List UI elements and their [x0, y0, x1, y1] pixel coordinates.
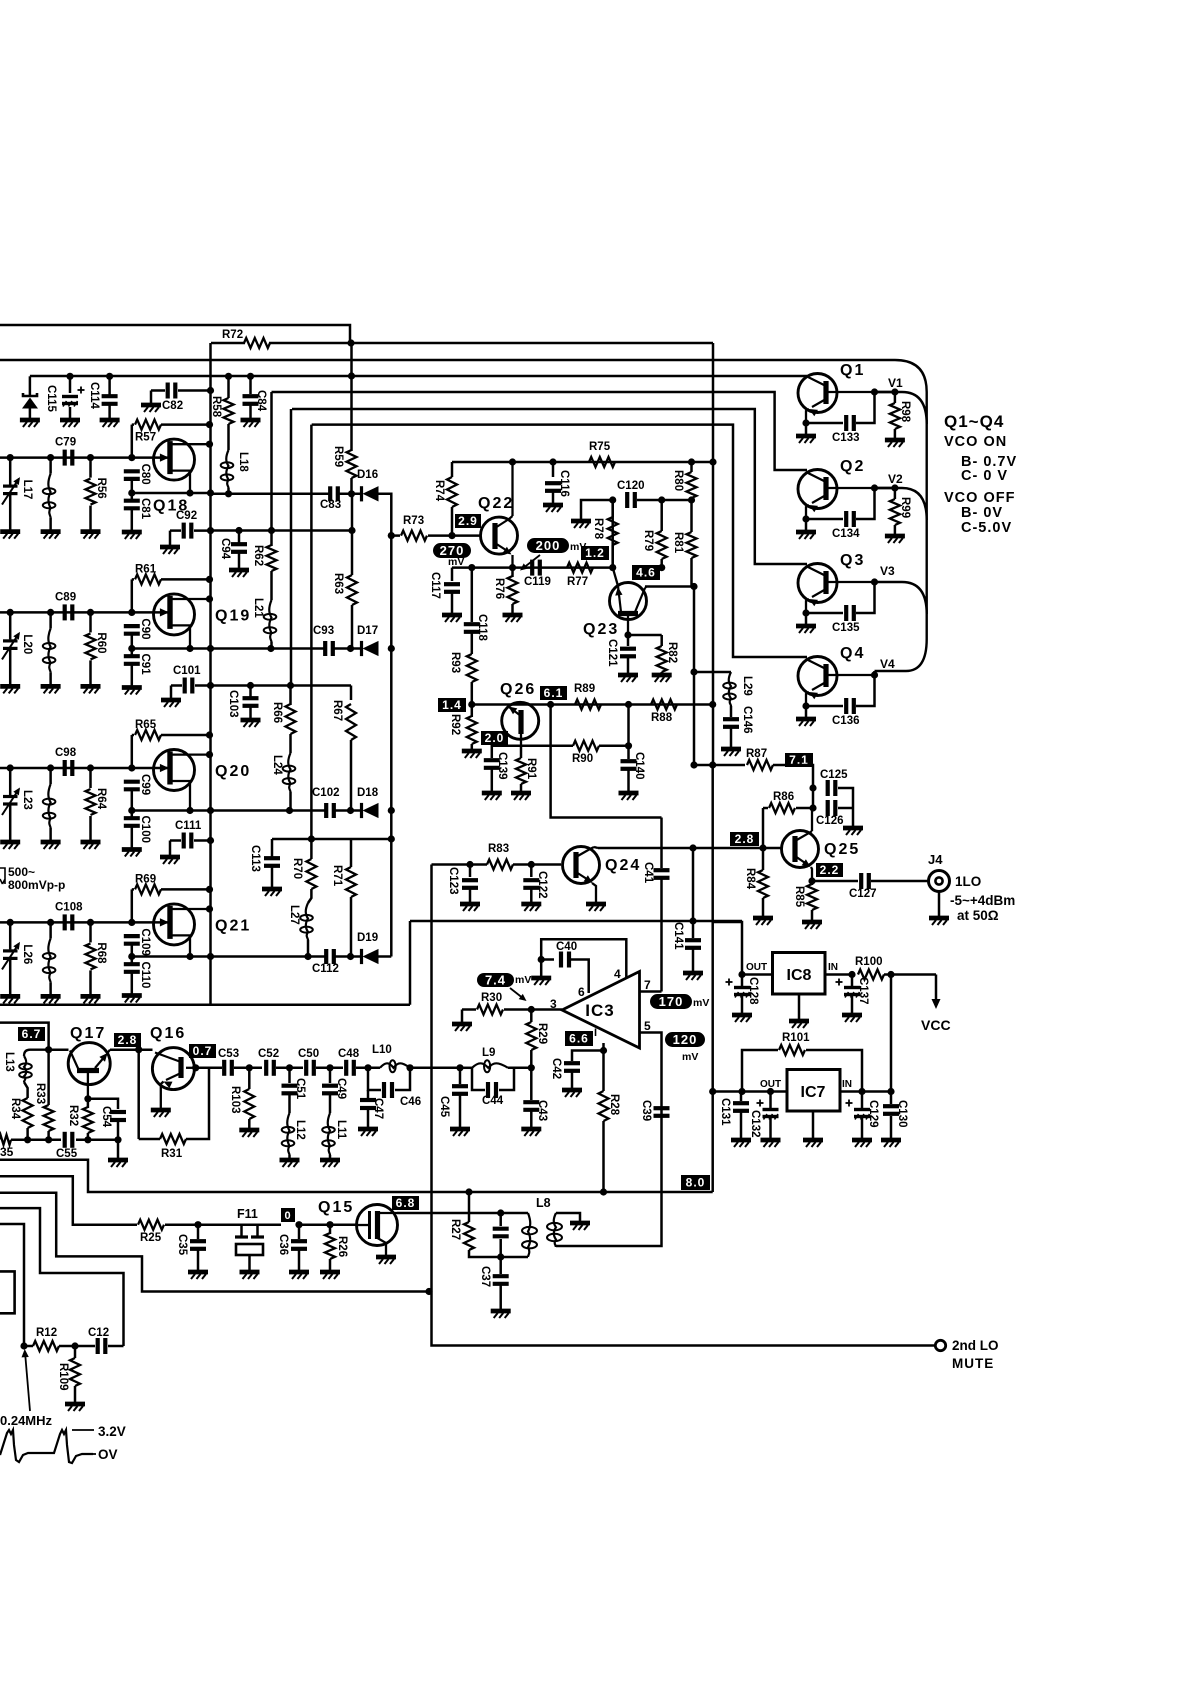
- svg-text:L18: L18: [237, 452, 249, 472]
- box 8.0: [681, 1175, 710, 1190]
- capacitor C116: [552, 462, 555, 477]
- svg-text:C- 0 V: C- 0 V: [961, 468, 1008, 484]
- wire IC7 IN row: [840, 1090, 891, 1093]
- svg-text:mV: mV: [682, 1051, 698, 1063]
- svg-text:R79: R79: [642, 530, 654, 551]
- capacitor C132: [757, 1102, 764, 1104]
- svg-text:C54: C54: [100, 1106, 112, 1128]
- transistor Q23: [610, 583, 647, 620]
- inductor L23: [47, 764, 54, 771]
- capacitor C84: [247, 373, 254, 380]
- svg-text:R78: R78: [592, 518, 604, 540]
- svg-text:L27: L27: [288, 905, 300, 925]
- svg-text:C108: C108: [55, 901, 83, 913]
- resistor R103: [246, 1064, 253, 1071]
- resistor R89: [575, 700, 601, 710]
- resistor R58: [225, 373, 232, 380]
- capacitor C133: [806, 422, 843, 425]
- capacitor C99: [124, 780, 140, 784]
- capacitor C135: [806, 612, 843, 615]
- svg-text:C113: C113: [249, 845, 261, 872]
- wire y=530.5 (C92 row to R63): [211, 529, 353, 532]
- svg-text:C83: C83: [320, 499, 341, 511]
- svg-text:D16: D16: [357, 469, 378, 481]
- wire D19 to rail: [378, 955, 391, 958]
- svg-text:C41: C41: [642, 862, 654, 884]
- box 7.1: [785, 753, 813, 767]
- inductor L17: [47, 454, 54, 461]
- svg-text:R60: R60: [95, 632, 107, 653]
- resistor R61: [132, 578, 134, 581]
- svg-text:C123: C123: [447, 867, 459, 895]
- resistor R70: [306, 859, 316, 889]
- svg-text:4: 4: [614, 967, 621, 981]
- resistor R90: [573, 741, 599, 751]
- svg-text:C115: C115: [45, 385, 57, 412]
- capacitor C82: [151, 389, 165, 392]
- resistor R74: [447, 477, 457, 507]
- wire Q20 source row extension: [211, 809, 327, 812]
- transistor Q24: [563, 847, 600, 884]
- svg-text:0: 0: [284, 1210, 291, 1222]
- svg-text:R34: R34: [9, 1098, 21, 1120]
- svg-text:6.1: 6.1: [544, 686, 564, 700]
- svg-text:Q19: Q19: [215, 607, 251, 624]
- pill 120 mV: [665, 1032, 705, 1047]
- svg-text:C35: C35: [176, 1234, 188, 1256]
- svg-text:R77: R77: [567, 576, 588, 588]
- svg-text:C92: C92: [176, 510, 197, 522]
- resistor R31: [137, 1050, 140, 1139]
- wire bus y=376 (Q1 base line): [30, 375, 807, 378]
- box 0 (F11 out): [281, 1208, 295, 1222]
- resistor R78: [608, 517, 618, 545]
- resistor R71: [346, 867, 356, 897]
- junction R72/y325: [347, 339, 354, 346]
- svg-text:J4: J4: [928, 852, 943, 867]
- capacitor C139: [492, 746, 521, 758]
- inductor L8 primary: [501, 1212, 528, 1215]
- svg-text:C102: C102: [312, 787, 340, 799]
- svg-text:6.8: 6.8: [396, 1196, 416, 1210]
- capacitor C118: [471, 568, 474, 622]
- svg-text:R70: R70: [291, 858, 303, 879]
- capacitor C114: [106, 373, 113, 380]
- resistor R85: [811, 881, 814, 885]
- capacitor C38: [499, 1213, 502, 1226]
- wire source row Q21: [132, 955, 211, 958]
- svg-text:120: 120: [673, 1032, 698, 1047]
- box 6.8: [392, 1196, 419, 1210]
- svg-text:C116: C116: [558, 470, 570, 497]
- svg-text:C130: C130: [896, 1100, 908, 1128]
- svg-text:R58: R58: [210, 396, 222, 418]
- svg-text:Q16: Q16: [150, 1025, 186, 1042]
- svg-text:C47: C47: [372, 1098, 384, 1119]
- svg-text:C46: C46: [400, 1096, 421, 1108]
- resistor R62: [270, 531, 273, 547]
- wire pin7 to C41: [640, 990, 662, 993]
- ground Q1 emitter: [802, 419, 809, 426]
- svg-text:IC7: IC7: [801, 1084, 826, 1101]
- capacitor C36: [295, 1221, 302, 1228]
- ground IC8: [798, 994, 801, 1020]
- svg-text:Q2: Q2: [840, 458, 865, 475]
- capacitor C122: [530, 865, 533, 878]
- svg-text:C100: C100: [139, 816, 151, 844]
- capacitor C102: [324, 803, 328, 818]
- svg-text:R88: R88: [651, 712, 673, 724]
- wire rail x=712 (y765-1192): [711, 765, 714, 1192]
- svg-text:R27: R27: [449, 1219, 461, 1240]
- arrow 200mV to emitter: [522, 555, 540, 569]
- vertical x=612 (R77 node to C120): [611, 500, 614, 568]
- svg-text:C137: C137: [857, 977, 869, 1005]
- svg-text:C131: C131: [719, 1098, 731, 1126]
- svg-text:C45: C45: [438, 1096, 450, 1118]
- resistor R28: [599, 1091, 609, 1121]
- svg-text:C93: C93: [313, 625, 334, 637]
- transistor Q22: [481, 517, 518, 554]
- inductor L27: [306, 903, 308, 940]
- svg-text:R31: R31: [161, 1148, 183, 1160]
- svg-text:C103: C103: [227, 690, 239, 718]
- resistor R56: [87, 454, 94, 461]
- wire rail x=211 (y343-1004): [209, 343, 212, 1005]
- svg-text:7: 7: [644, 978, 651, 992]
- inductor L20: [47, 609, 54, 616]
- wire IC8 OUT from rail: [713, 922, 742, 975]
- capacitor C111: [170, 839, 181, 842]
- svg-text:C51: C51: [294, 1078, 306, 1100]
- wire Q18 source row extension: [211, 493, 331, 496]
- capacitor C46: [406, 1064, 413, 1071]
- svg-text:C135: C135: [832, 622, 860, 634]
- svg-text:C84: C84: [255, 390, 267, 412]
- capacitor C126: [809, 804, 816, 811]
- transistor Q25: [782, 831, 819, 868]
- vertical x=694 (R81-Q23-L29-R87): [693, 587, 696, 766]
- capacitor C40 loop: [538, 956, 545, 963]
- capacitor C12: [71, 1342, 78, 1349]
- svg-text:R71: R71: [331, 865, 343, 887]
- svg-text:2.8: 2.8: [118, 1033, 138, 1047]
- svg-text:C136: C136: [832, 715, 860, 727]
- svg-text:R63: R63: [332, 573, 344, 594]
- svg-text:Q4: Q4: [840, 645, 865, 662]
- svg-text:R75: R75: [589, 441, 611, 453]
- wire Q23 collector y=586.5: [645, 585, 694, 588]
- transistor Q1: [798, 374, 837, 413]
- svg-text:2.0: 2.0: [485, 731, 505, 745]
- pill 270 mV: [433, 543, 471, 558]
- capacitor C137: [836, 981, 843, 983]
- svg-text:Q20: Q20: [215, 763, 251, 780]
- svg-text:R68: R68: [95, 942, 107, 964]
- resistor R92: [468, 701, 475, 708]
- resistor R59: [347, 450, 357, 478]
- svg-text:C89: C89: [55, 591, 76, 603]
- resistor R27: [464, 1222, 474, 1250]
- transistor Q4: [798, 657, 837, 696]
- box 1.4: [438, 698, 466, 712]
- capacitor C130: [883, 1104, 899, 1108]
- wire VCC branch: [887, 971, 894, 978]
- svg-text:3.2V: 3.2V: [98, 1424, 126, 1439]
- wire VCO loop bus: [895, 360, 927, 671]
- svg-text:Q23: Q23: [583, 621, 619, 638]
- pill 200 mV: [527, 538, 569, 553]
- capacitor C50: [304, 1060, 308, 1076]
- svg-text:R99: R99: [899, 497, 911, 518]
- svg-text:C127: C127: [849, 888, 877, 900]
- svg-text:C91: C91: [139, 654, 151, 676]
- svg-text:mV: mV: [693, 997, 709, 1009]
- capacitor C92: [170, 529, 181, 532]
- svg-text:C111: C111: [175, 820, 202, 832]
- diode D19: [304, 953, 311, 960]
- wire R83 row y=864.5: [432, 863, 471, 866]
- svg-text:R101: R101: [782, 1032, 810, 1044]
- capacitor C42: [572, 1051, 604, 1062]
- svg-text:mV: mV: [448, 556, 464, 568]
- inductor L21: [270, 571, 273, 600]
- zener diode (supply): [29, 376, 32, 395]
- svg-text:8.0: 8.0: [686, 1176, 706, 1190]
- transistor Q19 (FET): [128, 609, 135, 616]
- wire input row Q21 y=922.4: [0, 921, 132, 924]
- svg-text:R72: R72: [222, 329, 243, 341]
- varactor diode row Q19: [7, 609, 14, 616]
- resistor R87: [747, 760, 773, 770]
- svg-text:C50: C50: [298, 1048, 319, 1060]
- svg-text:C126: C126: [816, 815, 844, 827]
- varactor diode row Q20: [7, 764, 14, 771]
- wire source row Q19: [132, 647, 211, 650]
- wire staircase 2 (to R25): [0, 1176, 137, 1225]
- svg-text:R81: R81: [672, 532, 684, 554]
- capacitor C89: [63, 604, 67, 620]
- transistor Q21 (FET): [128, 919, 135, 926]
- resistor R69: [132, 888, 134, 891]
- wire bus y=409 (Q3 base line): [292, 409, 807, 564]
- wire Q25 emitter y=881: [808, 877, 815, 884]
- svg-text:C12: C12: [88, 1327, 109, 1339]
- svg-text:R28: R28: [608, 1094, 620, 1116]
- capacitor C100: [128, 807, 135, 814]
- diode D16: [348, 490, 355, 497]
- svg-text:Q24: Q24: [605, 857, 641, 874]
- capacitor C125: [809, 784, 816, 791]
- capacitor C103: [249, 686, 252, 698]
- capacitor C39: [654, 1106, 670, 1110]
- svg-text:C43: C43: [536, 1100, 548, 1121]
- svg-text:L17: L17: [21, 480, 33, 500]
- svg-text:C119: C119: [524, 576, 551, 588]
- svg-text:R30: R30: [481, 992, 502, 1004]
- box 4.6: [632, 565, 660, 580]
- svg-text:L8: L8: [536, 1196, 551, 1210]
- capacitor C108: [63, 914, 67, 930]
- resistor R29: [526, 1022, 536, 1050]
- capacitor C80: [124, 469, 140, 473]
- svg-text:R29: R29: [536, 1023, 548, 1044]
- svg-text:0.24MHz: 0.24MHz: [0, 1413, 53, 1428]
- capacitor C134: [806, 518, 843, 521]
- svg-text:C39: C39: [640, 1100, 652, 1121]
- svg-text:R76: R76: [493, 578, 505, 599]
- svg-text:Q1: Q1: [840, 362, 865, 379]
- svg-text:2.8: 2.8: [735, 832, 755, 846]
- svg-text:R89: R89: [574, 683, 595, 695]
- wire R87 row y=765: [694, 764, 745, 767]
- svg-text:V1: V1: [888, 376, 903, 390]
- svg-text:R59: R59: [332, 446, 344, 467]
- svg-text:C112: C112: [312, 963, 339, 975]
- svg-text:Q17: Q17: [70, 1025, 106, 1042]
- transistor Q15 (FET): [330, 1223, 357, 1226]
- svg-text:5: 5: [644, 1019, 651, 1033]
- wire R87 to C125: [773, 765, 813, 788]
- inductor L11: [328, 1113, 330, 1155]
- resistor R82: [628, 634, 662, 637]
- wire staircase 5 (to R12 node): [0, 1224, 24, 1346]
- svg-text:L20: L20: [21, 634, 33, 654]
- resistor R12: [20, 1342, 27, 1349]
- svg-text:R69: R69: [135, 873, 156, 885]
- svg-text:OUT: OUT: [746, 962, 767, 973]
- box 6.1: [540, 686, 567, 700]
- svg-text:800mVp-p: 800mVp-p: [8, 878, 65, 892]
- svg-text:R84: R84: [744, 868, 756, 890]
- svg-text:R56: R56: [95, 478, 107, 499]
- svg-text:6.7: 6.7: [22, 1027, 42, 1041]
- svg-text:R65: R65: [135, 719, 157, 731]
- wire D16 out to x=391: [378, 494, 391, 536]
- wire y=704 (1.4 node to R88/R89): [472, 703, 713, 706]
- svg-text:IC8: IC8: [787, 967, 812, 984]
- capacitor C120: [625, 492, 629, 508]
- pill 170 mV: [650, 994, 692, 1009]
- svg-text:IN: IN: [828, 962, 838, 973]
- wire Q24-Q25 base y=848: [598, 847, 781, 850]
- arrow 7.4 to pin3: [510, 988, 524, 999]
- svg-text:L26: L26: [21, 944, 33, 964]
- wire staircase 4 (to R12/C12): [0, 1208, 124, 1346]
- svg-text:C141: C141: [672, 922, 684, 950]
- resistor R30: [461, 1010, 464, 1024]
- wire bus y=392 (Q2 base line): [272, 392, 808, 470]
- resistor R84: [758, 870, 768, 898]
- svg-text:4.6: 4.6: [636, 566, 656, 580]
- svg-text:7.4: 7.4: [485, 973, 506, 988]
- resistor R83: [487, 860, 513, 870]
- wire Q21 source row extension: [211, 955, 327, 958]
- inductor L12: [287, 1113, 289, 1155]
- wire input row Q19 y=612.4: [0, 611, 132, 614]
- capacitor C131: [740, 1092, 743, 1102]
- capacitor C141: [692, 848, 695, 921]
- capacitor C55: [63, 1132, 67, 1148]
- resistor R73: [391, 534, 400, 537]
- resistor R33: [47, 1050, 50, 1105]
- capacitor C79: [63, 450, 67, 466]
- resistor R99: [891, 484, 898, 491]
- wire input row Q18 y=457.6: [0, 456, 132, 459]
- svg-text:C134: C134: [832, 528, 860, 540]
- svg-text:mV: mV: [515, 974, 531, 986]
- svg-text:200: 200: [536, 538, 561, 553]
- capacitor C113: [271, 839, 274, 857]
- wire R72 line y=343 to x=713: [211, 342, 245, 345]
- resistor R65: [132, 734, 134, 737]
- waveform 3.2V/0V: [0, 1430, 93, 1463]
- svg-text:R82: R82: [666, 642, 678, 663]
- inductor L29: [694, 671, 731, 674]
- resistor R100: [858, 970, 884, 980]
- capacitor C45: [459, 1068, 462, 1084]
- wire V4 stub: [875, 670, 907, 673]
- svg-text:6: 6: [578, 985, 585, 999]
- svg-text:Q1~Q4: Q1~Q4: [944, 412, 1004, 431]
- inductor L10: [364, 1064, 371, 1071]
- wire 6.7 input: [0, 1023, 49, 1050]
- svg-text:2.2: 2.2: [820, 863, 840, 877]
- svg-text:1LO: 1LO: [955, 874, 981, 889]
- svg-text:D19: D19: [357, 932, 378, 944]
- svg-text:C36: C36: [277, 1234, 289, 1255]
- ground Q4 emitter: [802, 702, 809, 709]
- resistor R75: [589, 457, 615, 467]
- svg-text:C110: C110: [139, 962, 151, 989]
- svg-text:OV: OV: [98, 1447, 118, 1462]
- transistor Q16: [152, 1048, 194, 1090]
- wire Q19 source row extension: [211, 647, 326, 650]
- svg-text:R93: R93: [449, 652, 461, 673]
- capacitor C53: [222, 1060, 226, 1076]
- resistor R25: [138, 1220, 164, 1230]
- resistor R81: [687, 532, 697, 558]
- transistor Q18 (FET): [128, 454, 135, 461]
- wire riser x=271.5 (y392 to R62 node): [270, 392, 273, 531]
- box 6.7: [18, 1027, 45, 1041]
- wire riser x=410 (y921 to y1004.7): [409, 921, 412, 1005]
- capacitor C44: [472, 1068, 485, 1090]
- resistor R101: [742, 1050, 778, 1092]
- svg-text:C120: C120: [617, 480, 645, 492]
- pill 7.4 mV: [477, 973, 514, 987]
- svg-text:C48: C48: [338, 1048, 360, 1060]
- svg-text:C139: C139: [496, 752, 508, 780]
- svg-text:C82: C82: [162, 400, 183, 412]
- svg-text:VCC: VCC: [921, 1017, 951, 1033]
- inductor L8 secondary: [554, 1213, 556, 1247]
- svg-text:C55: C55: [56, 1148, 78, 1160]
- wire source row Q18: [132, 492, 211, 495]
- svg-text:C146: C146: [741, 706, 753, 734]
- op-amp IC3: [562, 972, 640, 1049]
- svg-text:C129: C129: [867, 1100, 879, 1128]
- svg-text:R73: R73: [403, 515, 424, 527]
- capacitor C136: [806, 705, 843, 708]
- svg-text:R32: R32: [67, 1105, 79, 1126]
- inductor L13: [24, 1050, 49, 1056]
- capacitor C121: [624, 631, 631, 638]
- svg-text:R25: R25: [140, 1232, 162, 1244]
- capacitor C54: [88, 1099, 118, 1109]
- svg-text:R64: R64: [95, 788, 107, 810]
- svg-text:R33: R33: [34, 1083, 46, 1104]
